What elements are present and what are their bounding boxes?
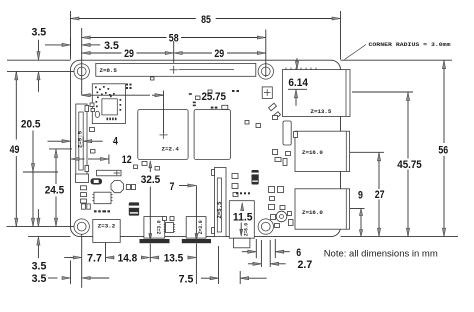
dim 4 bbox=[48, 140, 63, 142]
hole line extension bottom-left bbox=[7, 226, 75, 228]
top edge extension right bbox=[341, 59, 453, 61]
connector 1 pad bbox=[140, 239, 170, 243]
capacitor C2 bbox=[252, 170, 259, 185]
LED diagonal 1 bbox=[269, 103, 277, 111]
USB stack 1 bbox=[295, 131, 350, 171]
Ethernet jack bbox=[282, 70, 350, 117]
svg-text:CORNER RADIUS = 3.0mm: CORNER RADIUS = 3.0mm bbox=[369, 41, 452, 48]
regulator IC U5 bbox=[94, 192, 111, 204]
svg-text:7: 7 bbox=[170, 181, 175, 193]
capacitor C1 bbox=[129, 202, 139, 215]
svg-text:Z=3.0: Z=3.0 bbox=[197, 220, 204, 234]
svg-text:12: 12 bbox=[122, 154, 132, 166]
svg-text:Z=3.2: Z=3.2 bbox=[98, 222, 116, 229]
svg-text:6: 6 bbox=[296, 247, 301, 259]
crystal X1 bbox=[111, 181, 124, 193]
svg-text:Z=3.0: Z=3.0 bbox=[156, 220, 163, 234]
LED diagonal 2 bbox=[273, 112, 281, 120]
pads row bbox=[94, 210, 97, 212]
svg-text:20.5: 20.5 bbox=[21, 118, 41, 130]
svg-text:2.7: 2.7 bbox=[298, 259, 313, 271]
passives cluster left upper bbox=[90, 128, 95, 132]
dim 29 right bbox=[182, 52, 213, 54]
board mid tick bbox=[49, 148, 72, 150]
dim 25.75 bbox=[82, 94, 150, 96]
connector 2 bbox=[186, 217, 206, 239]
audio jack bbox=[229, 201, 254, 239]
dim 27 bbox=[378, 152, 380, 189]
svg-text:3.5: 3.5 bbox=[32, 261, 47, 273]
dim 7.7 bbox=[73, 256, 82, 259]
ferrite FB1 bbox=[91, 178, 103, 184]
svg-text:29: 29 bbox=[214, 48, 224, 60]
DSI flange bbox=[76, 174, 89, 183]
svg-text:Z=8.5: Z=8.5 bbox=[100, 67, 118, 74]
PCB board outline bbox=[71, 60, 341, 236]
connector 2 pad bbox=[182, 239, 211, 243]
USB stack 2 bbox=[295, 189, 350, 229]
pads above audio jack bbox=[236, 192, 238, 194]
svg-text:3.5: 3.5 bbox=[31, 27, 46, 39]
ext PWR center bbox=[105, 243, 107, 262]
svg-text:Z=16.0: Z=16.0 bbox=[302, 149, 323, 156]
dim 11.5 bbox=[241, 203, 244, 211]
svg-text:Z=5.5: Z=5.5 bbox=[216, 201, 223, 218]
dim 12 bbox=[71, 157, 80, 160]
svg-text:3.5: 3.5 bbox=[32, 273, 47, 285]
RAM U2 bbox=[194, 110, 230, 160]
passives mid-bottom bbox=[163, 217, 167, 221]
hole extension top-right bbox=[265, 30, 267, 78]
bottom edge extension left bbox=[28, 236, 71, 238]
dim 49 bbox=[15, 71, 17, 139]
mounting hole bottom-right bbox=[258, 219, 273, 234]
hole line extension left bbox=[7, 70, 74, 72]
eth center tick bbox=[352, 91, 413, 93]
svg-text:9: 9 bbox=[358, 190, 363, 202]
dim 6 ext lines bbox=[255, 239, 257, 258]
passives below GPIO bbox=[151, 77, 155, 80]
dim 56 bbox=[443, 60, 445, 143]
svg-text:4: 4 bbox=[113, 136, 119, 148]
svg-text:85: 85 bbox=[201, 14, 211, 26]
connector 1 bbox=[144, 217, 165, 239]
dim 2.7 bbox=[253, 262, 262, 265]
svg-text:Z=5.5: Z=5.5 bbox=[76, 131, 83, 148]
caps pair bbox=[126, 185, 130, 190]
svg-text:6.14: 6.14 bbox=[288, 77, 308, 89]
dim 2.7 ext lines bbox=[260, 240, 262, 267]
DSI display connector bbox=[76, 104, 87, 177]
mounting hole top-left bbox=[74, 64, 89, 79]
usb1 center tick bbox=[350, 151, 384, 153]
IC between connectors bbox=[166, 223, 174, 233]
svg-text:29: 29 bbox=[124, 48, 134, 60]
inductor bar L1 bbox=[97, 170, 122, 176]
WiFi module U3 bbox=[92, 84, 125, 124]
dim 13.5 bbox=[150, 256, 159, 259]
svg-text:56: 56 bbox=[438, 144, 448, 156]
svg-text:Note: all dimensions in mm: Note: all dimensions in mm bbox=[324, 249, 438, 260]
dim 85 extension right bbox=[340, 11, 342, 60]
passives col left-edge bbox=[81, 186, 87, 190]
svg-text:25.75: 25.75 bbox=[201, 91, 226, 103]
svg-text:14.8: 14.8 bbox=[118, 253, 138, 265]
WiFi test pads bbox=[126, 84, 128, 86]
dim 29 mid line bbox=[173, 41, 175, 63]
IC right column bbox=[283, 121, 291, 145]
svg-text:Z=6.0: Z=6.0 bbox=[243, 223, 250, 236]
ext conn1 center-ext bbox=[149, 244, 151, 263]
mounting hole top-right bbox=[258, 64, 273, 79]
dim 32.5 bbox=[149, 161, 152, 168]
hole extension top-left bbox=[81, 28, 83, 95]
dim 45.75 bbox=[407, 92, 409, 159]
svg-text:Z=16.0: Z=16.0 bbox=[302, 209, 323, 216]
usb2 center tick bbox=[350, 208, 365, 210]
svg-text:32.5: 32.5 bbox=[141, 174, 161, 186]
dim 85 extension left bbox=[70, 11, 72, 60]
dim 58 bbox=[82, 37, 167, 39]
dim 24.5 bbox=[55, 149, 57, 184]
svg-text:13.5: 13.5 bbox=[164, 253, 184, 265]
CSI camera connector bbox=[215, 168, 227, 237]
passives right-bottom cluster bbox=[269, 187, 275, 193]
dim 6 bbox=[248, 250, 256, 253]
dim 3.5 top horizontal bbox=[45, 44, 62, 46]
SoC U1 BCM2837 bbox=[138, 110, 188, 160]
micro-USB power bbox=[93, 220, 120, 243]
svg-text:11.5: 11.5 bbox=[233, 212, 253, 224]
tick y172 bbox=[23, 171, 58, 173]
svg-text:7.5: 7.5 bbox=[179, 273, 194, 285]
dim 3.5 bottom vertical arrows bbox=[37, 218, 40, 227]
svg-text:Z=2.4: Z=2.4 bbox=[162, 145, 180, 152]
svg-text:Z=13.5: Z=13.5 bbox=[311, 108, 332, 115]
top edge extension left bbox=[7, 59, 71, 61]
svg-text:7.7: 7.7 bbox=[87, 253, 102, 265]
svg-text:27: 27 bbox=[375, 189, 385, 201]
svg-text:24.5: 24.5 bbox=[45, 185, 65, 197]
svg-text:3.5: 3.5 bbox=[104, 40, 119, 52]
GPIO header J8 bbox=[96, 63, 256, 76]
dim 14.8 bbox=[106, 256, 115, 259]
bottom edge extension right bbox=[341, 236, 459, 238]
dim 29 left bbox=[82, 52, 122, 54]
svg-text:49: 49 bbox=[10, 144, 20, 156]
ext conn2 center-ext bbox=[195, 244, 197, 285]
PoE header bbox=[262, 87, 272, 99]
svg-text:45.75: 45.75 bbox=[397, 159, 422, 171]
dim 85 bbox=[71, 18, 196, 20]
mounting hole bottom-left bbox=[74, 219, 89, 234]
